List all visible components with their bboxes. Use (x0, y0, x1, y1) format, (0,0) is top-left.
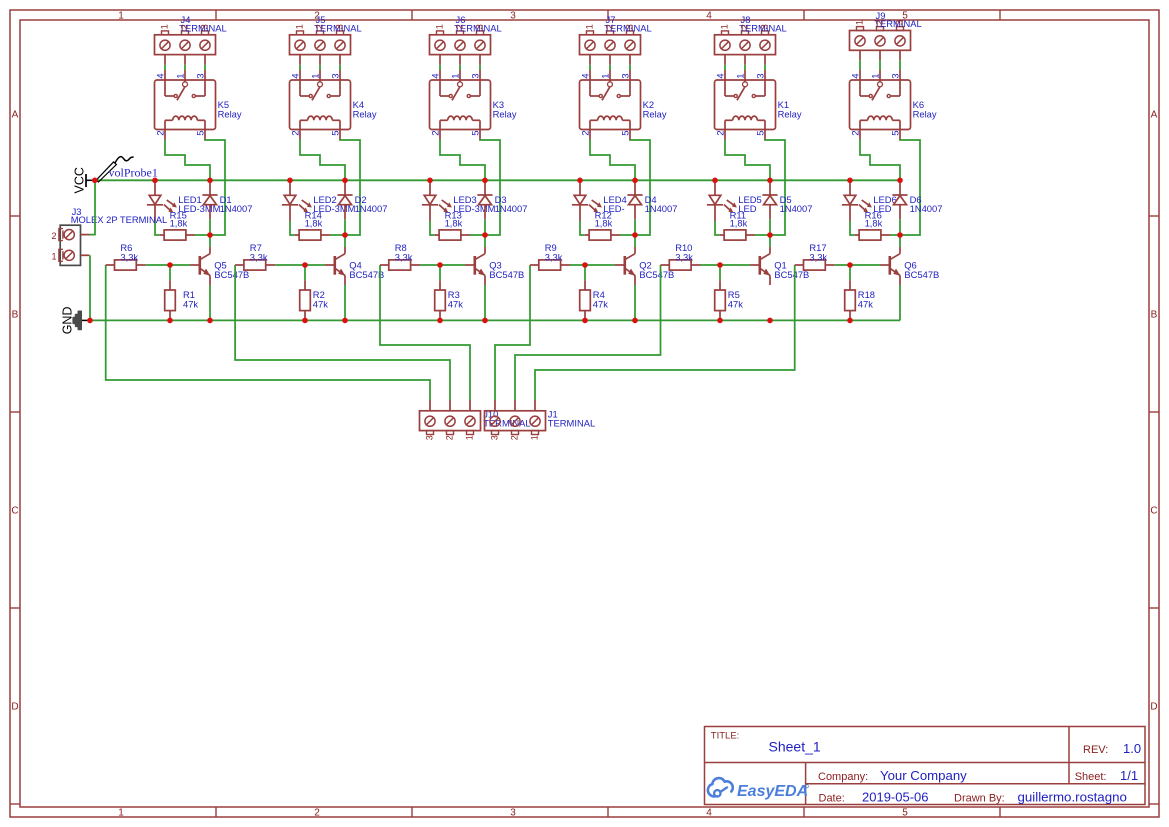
svg-text:2: 2 (604, 24, 615, 29)
svg-text:1: 1 (434, 24, 445, 29)
wire diode to collector junction (899, 219, 901, 235)
resistor R2 47k (300, 280, 311, 320)
svg-text:2: 2 (454, 24, 465, 29)
svg-text:3: 3 (621, 73, 632, 78)
junction LED at VCC (577, 178, 583, 184)
junction emitter at GND (342, 318, 348, 324)
resistor R17 3,3k (795, 260, 835, 270)
junction collector node (897, 232, 903, 238)
wire junction to collector (634, 235, 636, 247)
wire terminal pin to relay (879, 60, 881, 70)
relay K4 (290, 70, 351, 140)
svg-text:GND: GND (61, 307, 75, 335)
svg-text:2: 2 (179, 24, 190, 29)
svg-text:volProbe1: volProbe1 (109, 166, 158, 180)
relay K1 (715, 70, 776, 140)
connector J9 3-pin terminal (850, 27, 911, 61)
wire terminal pin to relay (184, 65, 186, 70)
junction diode at VCC (767, 178, 773, 184)
connector J6 3-pin terminal (430, 31, 491, 65)
wire J3 pin2 to VCC (90, 182, 96, 235)
wire terminal pin to relay (609, 65, 611, 70)
wire resistor to junction (755, 234, 768, 236)
LED LED1 (147, 180, 177, 221)
svg-text:B: B (1151, 310, 1158, 321)
junction base node (717, 262, 723, 268)
svg-text:2: 2 (445, 435, 455, 440)
svg-text:5: 5 (756, 130, 767, 135)
svg-text:1: 1 (719, 24, 730, 29)
wire junction to collector (899, 235, 901, 247)
pin numbers of relay K1 (716, 73, 767, 136)
wire diode to collector junction (484, 219, 486, 235)
wire relay pin5 to collector junction (765, 140, 785, 236)
svg-text:1: 1 (736, 73, 747, 78)
transistor Q6 BC547B (880, 247, 900, 285)
resistor R16 1,8k (855, 230, 890, 240)
svg-text:MOLEX 2P TERMINAL: MOLEX 2P TERMINAL (71, 214, 168, 225)
svg-text:Relay: Relay (353, 108, 377, 119)
pin numbers of J6 (434, 24, 485, 29)
resistor R8 3,3k (380, 260, 420, 270)
wire base resistor to base junction (275, 264, 305, 266)
wire diode to collector junction (769, 219, 771, 235)
svg-text:Company:: Company: (818, 771, 868, 783)
svg-text:Relay: Relay (913, 108, 937, 119)
svg-text:C: C (1150, 506, 1157, 517)
pin numbers of relay K2 (581, 73, 632, 136)
LED LED4 (572, 180, 602, 221)
resistor R13 1,8k (435, 230, 470, 240)
pin numbers of J4 (159, 24, 210, 29)
wire relay pin2 to VCC (725, 140, 770, 181)
svg-text:47k: 47k (858, 298, 873, 309)
wire base junction to transistor base (440, 264, 465, 266)
svg-text:Sheet:: Sheet: (1075, 771, 1107, 783)
wire relay pin5 to collector junction (340, 140, 360, 236)
svg-text:5: 5 (621, 130, 632, 135)
pin numbers of J5 (294, 24, 345, 29)
svg-text:2: 2 (314, 808, 320, 819)
resistor R12 1,8k (585, 230, 620, 240)
svg-text:47k: 47k (183, 298, 198, 309)
wire base resistor to base junction (146, 264, 170, 266)
junction diode at VCC (632, 178, 638, 184)
diode D1 1N4007 (202, 180, 217, 219)
junction pulldown at GND (302, 318, 308, 324)
svg-text:Relay: Relay (493, 108, 517, 119)
pin numbers of J9 (854, 20, 905, 25)
svg-text:2: 2 (291, 130, 302, 135)
svg-text:1N4007: 1N4007 (220, 203, 253, 214)
connector J5 3-pin terminal (290, 31, 351, 65)
frame column labels top (118, 11, 908, 22)
svg-text:BC547B: BC547B (349, 269, 384, 280)
wire junction to collector (769, 235, 771, 247)
relay K2 (580, 70, 641, 140)
probe volProbe1 (96, 157, 134, 182)
junction diode at VCC (342, 178, 348, 184)
wire terminal pin to relay (339, 65, 341, 70)
svg-text:2: 2 (851, 130, 862, 135)
wire base junction to transistor base (720, 264, 750, 266)
diode D4 1N4007 (627, 180, 642, 219)
wire base resistor to base junction (835, 264, 850, 266)
connector J8 3-pin terminal (715, 31, 776, 65)
wire base junction to transistor base (170, 264, 190, 266)
svg-text:3: 3 (196, 73, 207, 78)
svg-text:47k: 47k (448, 298, 463, 309)
svg-text:4: 4 (431, 73, 442, 79)
svg-text:4: 4 (581, 73, 592, 79)
resistor R5 47k (715, 280, 726, 320)
svg-text:B: B (12, 310, 19, 321)
pin numbers of J1 (490, 435, 540, 440)
wire terminal pin to relay (164, 65, 166, 70)
junction LED at VCC (427, 178, 433, 184)
wire terminal pin to relay (319, 65, 321, 70)
wire resistor to junction (195, 234, 208, 236)
svg-text:2: 2 (581, 130, 592, 135)
svg-text:1: 1 (871, 73, 882, 78)
transistor Q1 BC547B (750, 247, 770, 285)
wire junction to collector (484, 235, 486, 247)
wire VCC rail (95, 179, 900, 181)
pin numbers of relay K4 (291, 73, 342, 136)
wire base junction down (304, 265, 306, 280)
transistor Q2 BC547B (615, 247, 635, 285)
svg-text:D: D (11, 702, 18, 713)
svg-text:5: 5 (902, 808, 908, 819)
power flag VCC (73, 167, 95, 193)
svg-text:1/1: 1/1 (1120, 768, 1138, 783)
svg-text:1,8k: 1,8k (865, 217, 883, 228)
svg-text:Relay: Relay (218, 108, 242, 119)
junction emitter at GND (207, 318, 213, 324)
svg-text:4: 4 (716, 73, 727, 79)
svg-text:guillermo.rostagno: guillermo.rostagno (1018, 790, 1127, 805)
svg-text:2: 2 (510, 435, 520, 440)
wire relay pin5 to collector junction (900, 140, 920, 236)
junction collector node (342, 232, 348, 238)
svg-text:EasyEDA: EasyEDA (737, 783, 808, 800)
svg-text:5: 5 (331, 130, 342, 135)
svg-text:TITLE:: TITLE: (711, 730, 740, 741)
svg-text:VCC: VCC (73, 167, 87, 193)
wire terminal pin to relay (589, 65, 591, 70)
svg-text:3,3k: 3,3k (120, 251, 138, 262)
junction pulldown at GND (437, 318, 443, 324)
pin numbers of relay K5 (156, 73, 207, 136)
svg-text:1: 1 (854, 20, 865, 25)
junction LED at VCC (152, 178, 158, 184)
junction base node (847, 262, 853, 268)
junction emitter at GND (767, 318, 773, 324)
wire LED to resistor (155, 221, 160, 235)
svg-text:Date:: Date: (819, 792, 845, 804)
wire LED to resistor (715, 221, 720, 235)
resistor R18 47k (845, 280, 856, 320)
wire emitter to GND (484, 285, 486, 320)
wire LED to resistor (290, 221, 295, 235)
LED LED6 (842, 180, 872, 221)
svg-text:4: 4 (706, 808, 712, 819)
svg-text:1N4007: 1N4007 (495, 203, 528, 214)
wire relay pin2 to VCC (440, 140, 485, 181)
junction pulldown at GND (847, 318, 853, 324)
svg-text:2: 2 (51, 231, 56, 241)
LED LED5 (707, 180, 737, 221)
junction GND flag (87, 318, 93, 324)
junction base node (302, 262, 308, 268)
diode D3 1N4007 (477, 180, 492, 219)
svg-text:2: 2 (156, 130, 167, 135)
resistor R6 3,3k (106, 260, 146, 270)
connector J3 MOLEX 2P (59, 225, 90, 265)
svg-text:3,3k: 3,3k (395, 251, 413, 262)
connector J1 3-pin terminal (485, 400, 546, 435)
junction LED at VCC (287, 178, 293, 184)
relay K6 (850, 70, 911, 140)
svg-text:1.0: 1.0 (1123, 741, 1141, 756)
svg-text:A: A (1151, 110, 1158, 121)
wire input net vertical (106, 265, 430, 400)
junction base node (437, 262, 443, 268)
relay K3 (430, 70, 491, 140)
svg-text:3: 3 (891, 73, 902, 78)
svg-text:1: 1 (451, 73, 462, 78)
wire diode to collector junction (209, 219, 211, 235)
svg-text:A: A (12, 110, 19, 121)
svg-text:2: 2 (739, 24, 750, 29)
wire resistor to junction (330, 234, 343, 236)
junction base node (582, 262, 588, 268)
junction pulldown at GND (582, 318, 588, 324)
resistor R4 47k (580, 280, 591, 320)
wire junction to collector (344, 235, 346, 247)
junction emitter at GND (482, 318, 488, 324)
wire base junction down (584, 265, 586, 280)
svg-text:2019-05-06: 2019-05-06 (862, 789, 929, 804)
wire input net vertical (235, 265, 450, 400)
wire terminal pin to relay (859, 60, 861, 70)
wire relay pin5 to collector junction (205, 140, 225, 236)
diode D2 1N4007 (337, 180, 352, 219)
junction collector node (482, 232, 488, 238)
resistor R1 47k (165, 280, 176, 320)
wire emitter to GND (634, 285, 636, 320)
junction LED at VCC (712, 178, 718, 184)
connector J4 3-pin terminal (155, 31, 216, 65)
junction emitter at GND (632, 318, 638, 324)
svg-text:1,8k: 1,8k (305, 217, 323, 228)
svg-text:3: 3 (331, 73, 342, 78)
transistor Q3 BC547B (465, 247, 485, 285)
wire resistor to junction (470, 234, 483, 236)
svg-text:Your Company: Your Company (880, 768, 967, 783)
svg-text:1N4007: 1N4007 (910, 203, 943, 214)
title block frame (705, 727, 1146, 805)
resistor R7 3,3k (235, 260, 275, 270)
svg-text:3: 3 (510, 11, 516, 22)
junction diode at VCC (482, 178, 488, 184)
svg-text:3,3k: 3,3k (545, 251, 563, 262)
wire LED to resistor (430, 221, 435, 235)
wire emitter to GND (899, 285, 901, 320)
LED LED3 (422, 180, 452, 221)
wire resistor to junction (890, 234, 898, 236)
svg-text:1,8k: 1,8k (170, 217, 188, 228)
wire base junction to transistor base (850, 264, 880, 266)
wire terminal pin to relay (899, 60, 901, 70)
svg-text:1: 1 (601, 73, 612, 78)
junction diode at VCC (897, 178, 903, 184)
wire relay pin5 to collector junction (480, 140, 500, 236)
svg-text:2: 2 (314, 24, 325, 29)
wire base junction down (169, 265, 171, 280)
wire base resistor to base junction (420, 264, 440, 266)
power flag GND (73, 311, 90, 329)
pin numbers of J8 (719, 24, 770, 29)
svg-text:1: 1 (118, 11, 124, 22)
svg-text:2: 2 (874, 20, 885, 25)
wire terminal pin to relay (744, 65, 746, 70)
svg-text:4: 4 (291, 73, 302, 79)
connector J10 3-pin terminal (420, 400, 481, 435)
wire terminal pin to relay (629, 65, 631, 70)
svg-text:3,3k: 3,3k (675, 251, 693, 262)
resistor R10 3,3k (661, 260, 701, 270)
wire input net vertical (515, 265, 661, 400)
svg-text:Drawn By:: Drawn By: (954, 792, 1005, 804)
svg-text:3: 3 (425, 435, 435, 440)
svg-text:4: 4 (706, 11, 712, 22)
svg-text:BC547B: BC547B (904, 269, 939, 280)
wire terminal pin to relay (724, 65, 726, 70)
wire GND rail (90, 319, 900, 321)
svg-text:4: 4 (851, 73, 862, 79)
wire terminal pin to relay (439, 65, 441, 70)
svg-text:5: 5 (196, 130, 207, 135)
svg-text:2: 2 (716, 130, 727, 135)
junction collector node (767, 232, 773, 238)
wire LED to resistor (580, 221, 585, 235)
svg-text:3: 3 (474, 24, 485, 29)
wire relay pin5 to collector junction (630, 140, 650, 236)
pin numbers of J7 (584, 24, 635, 29)
svg-text:47k: 47k (728, 298, 743, 309)
frame row labels left (11, 110, 18, 713)
diode D6 1N4007 (892, 180, 907, 219)
junction base node (167, 262, 173, 268)
junction pulldown at GND (717, 318, 723, 324)
svg-text:1N4007: 1N4007 (780, 203, 813, 214)
wire base junction down (439, 265, 441, 280)
wire terminal pin to relay (764, 65, 766, 70)
frame column labels bottom (118, 808, 908, 819)
wire input net vertical (535, 265, 795, 400)
transistor Q5 BC547B (190, 247, 210, 285)
wire junction to collector (209, 235, 211, 247)
svg-text:47k: 47k (313, 298, 328, 309)
wire resistor to junction (620, 234, 633, 236)
resistor R15 1,8k (160, 230, 195, 240)
wire emitter to GND (344, 285, 346, 320)
wire input net vertical (495, 265, 530, 400)
pin numbers of J3 (51, 231, 56, 261)
svg-text:1N4007: 1N4007 (645, 203, 678, 214)
wire base resistor to base junction (701, 264, 721, 266)
junction LED at VCC (847, 178, 853, 184)
svg-text:1,8k: 1,8k (595, 217, 613, 228)
wire base junction to transistor base (305, 264, 325, 266)
junction collector node (632, 232, 638, 238)
wire diode to collector junction (634, 219, 636, 235)
resistor R14 1,8k (295, 230, 330, 240)
svg-text:4: 4 (156, 73, 167, 79)
wire terminal pin to relay (299, 65, 301, 70)
wire base junction down (719, 265, 721, 280)
svg-text:3: 3 (756, 73, 767, 78)
LED LED2 (282, 180, 312, 221)
svg-text:TERMINAL: TERMINAL (548, 418, 595, 429)
junction pulldown at GND (167, 318, 173, 324)
svg-text:3: 3 (490, 435, 500, 440)
svg-text:2: 2 (431, 130, 442, 135)
transistor Q4 BC547B (325, 247, 345, 285)
wire relay pin2 to VCC (300, 140, 345, 181)
wire terminal pin to relay (479, 65, 481, 70)
svg-text:3: 3 (624, 24, 635, 29)
svg-text:Sheet_1: Sheet_1 (769, 739, 821, 755)
svg-text:3: 3 (199, 24, 210, 29)
svg-text:1: 1 (530, 435, 540, 440)
svg-text:3: 3 (334, 24, 345, 29)
svg-text:C: C (11, 506, 18, 517)
frame row labels right (1150, 110, 1157, 713)
wire LED to resistor (850, 221, 855, 235)
svg-text:1,8k: 1,8k (445, 217, 463, 228)
svg-text:1: 1 (465, 435, 475, 440)
svg-text:1: 1 (118, 808, 124, 819)
svg-text:1: 1 (584, 24, 595, 29)
wire base resistor to base junction (570, 264, 585, 266)
wire terminal pin to relay (459, 65, 461, 70)
pin numbers of J10 (425, 435, 475, 440)
svg-text:Relay: Relay (778, 108, 802, 119)
svg-text:1: 1 (176, 73, 187, 78)
wire emitter to GND (209, 285, 211, 320)
relay K5 (155, 70, 216, 140)
junction collector node (207, 232, 213, 238)
wire input net vertical (380, 265, 470, 400)
wire relay pin2 to VCC (860, 140, 900, 181)
junction VCC flag (92, 178, 98, 184)
svg-text:D: D (1150, 702, 1157, 713)
wire base junction down (849, 265, 851, 280)
svg-text:REV:: REV: (1083, 744, 1108, 756)
wire base junction to transistor base (585, 264, 615, 266)
svg-text:1N4007: 1N4007 (355, 203, 388, 214)
svg-text:3: 3 (759, 24, 770, 29)
pin numbers of relay K3 (431, 73, 482, 136)
svg-text:5: 5 (471, 130, 482, 135)
svg-text:3: 3 (510, 808, 516, 819)
svg-text:47k: 47k (593, 298, 608, 309)
wire J3 pin1 to GND (89, 255, 91, 320)
svg-text:1,8k: 1,8k (730, 217, 748, 228)
svg-text:3: 3 (471, 73, 482, 78)
